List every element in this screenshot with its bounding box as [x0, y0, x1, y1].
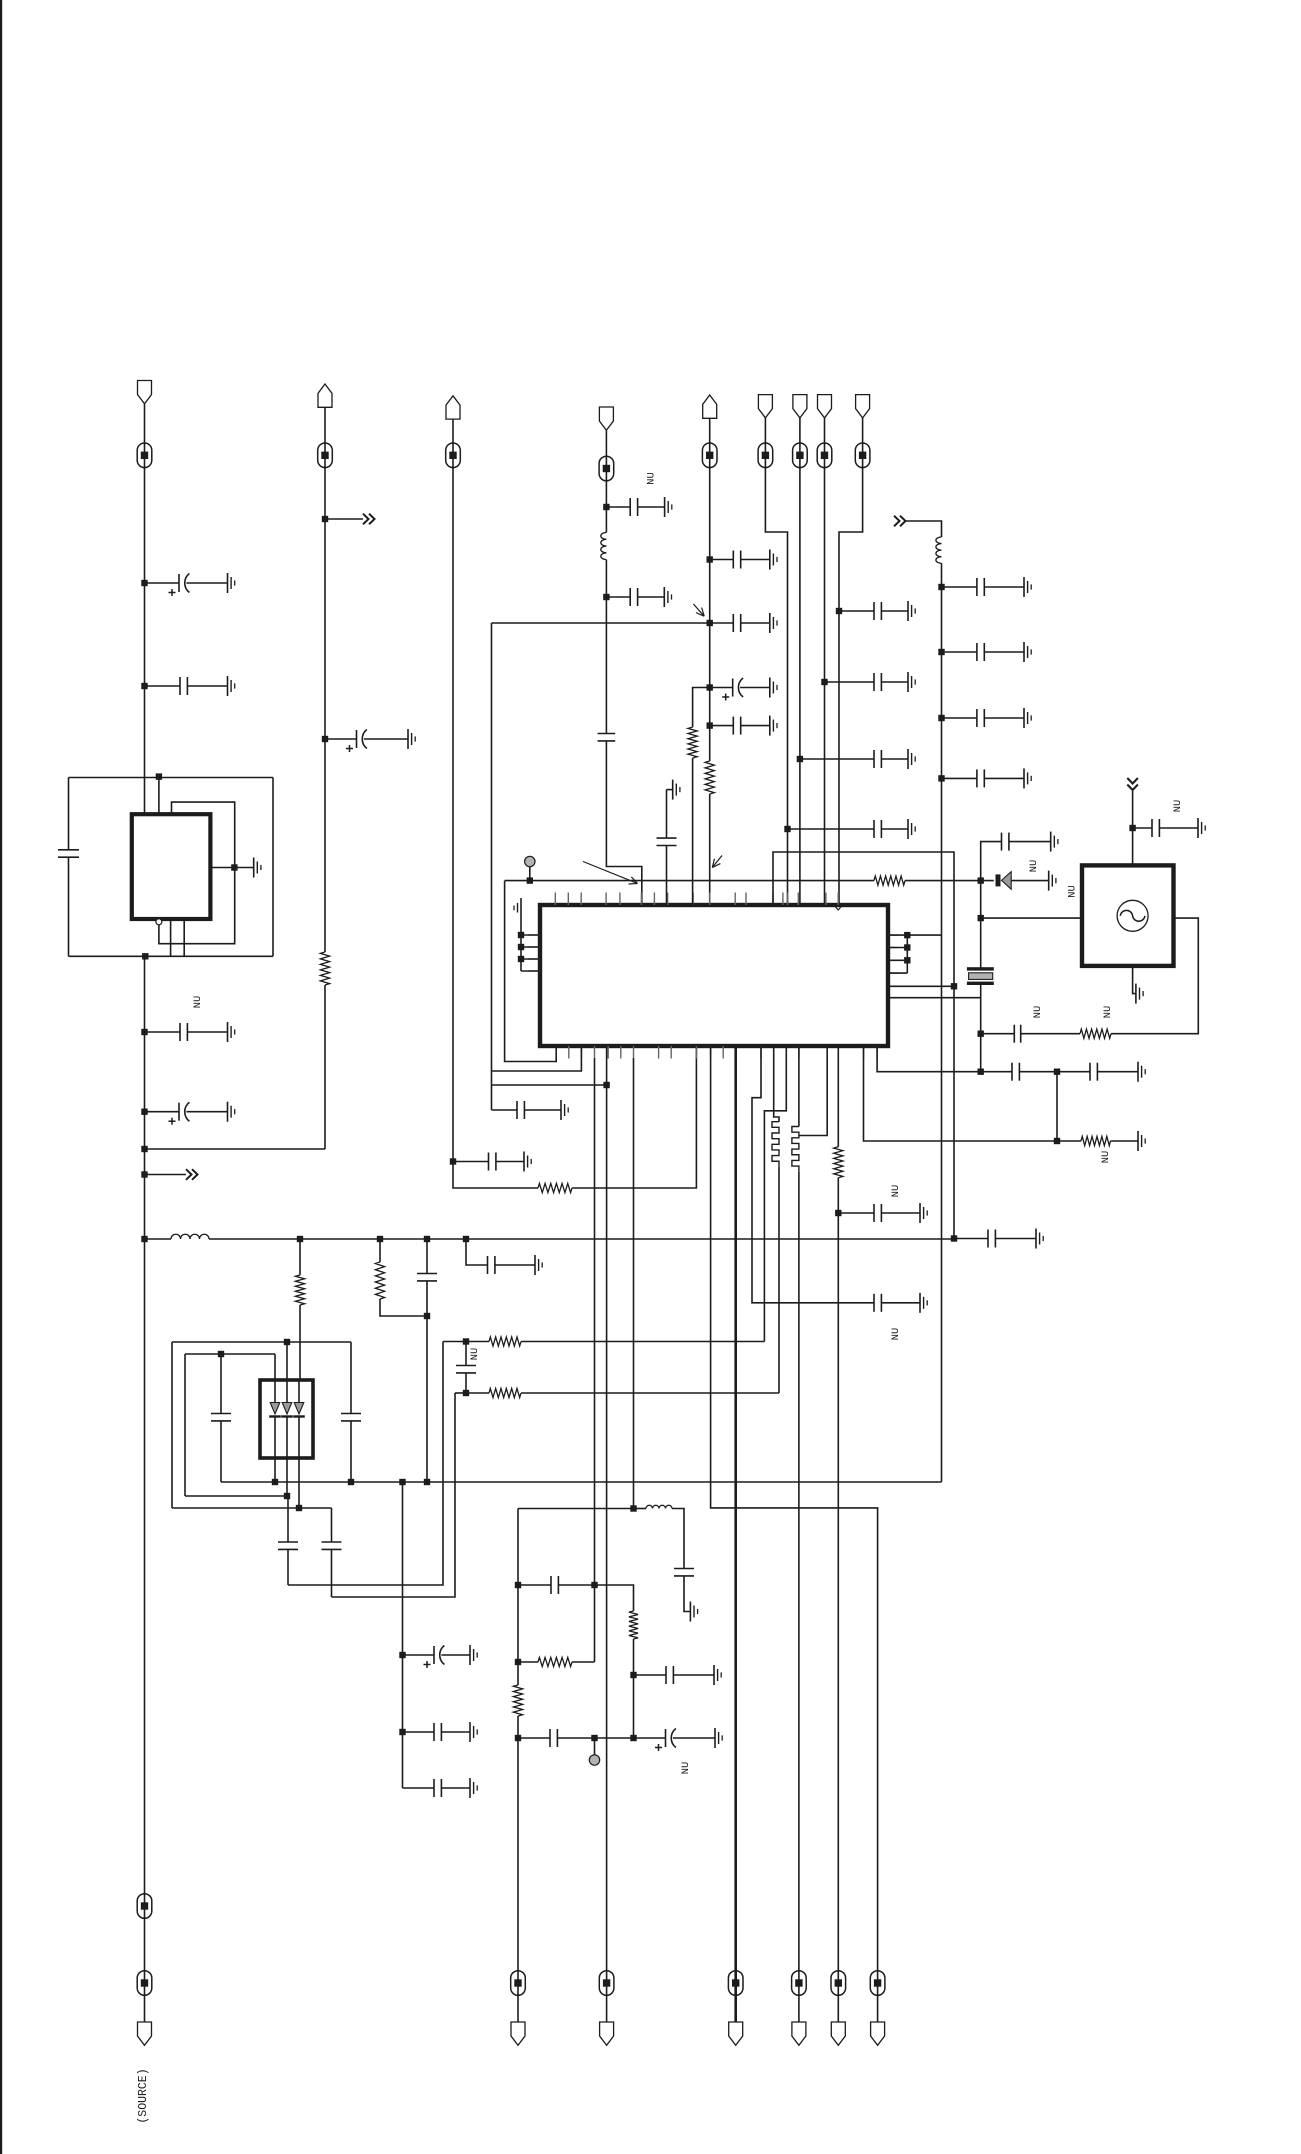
capacitor C17 ground: [907, 601, 909, 621]
wire X1 bottom pin B: [183, 919, 185, 956]
ground at U1 left pins: [520, 898, 522, 918]
annotation V arrowhead at IC pin: [833, 904, 843, 910]
capacitor C2 ground: [227, 676, 229, 696]
off-page arrow net1: [145, 1174, 187, 1176]
capacitor C35 (series): [657, 837, 677, 839]
junction x427/x380: [424, 1313, 430, 1319]
capacitor C11 ground: [769, 613, 771, 633]
capacitor C16 ground: [907, 672, 909, 692]
capacitor C37: [1133, 827, 1152, 829]
capacitor C8: [606, 596, 630, 598]
wire R14 to bottom connector: [837, 1178, 839, 2022]
testpoint oval bottom netD: [792, 1971, 807, 1996]
capacitor C43 (series): [674, 1568, 694, 1570]
wire C30 riser: [331, 1508, 333, 1542]
box around oscillator X1 - right edge: [272, 778, 274, 957]
wire row 1342 stub left: [443, 1341, 466, 1343]
wire C35 to U1 pin: [666, 846, 668, 906]
wire R4 to diode box: [299, 1305, 301, 1380]
wire R5 branch: [379, 1239, 381, 1262]
ground for C34: [560, 1100, 562, 1120]
junction row1662 left: [515, 1659, 521, 1665]
diode array U2 box: [260, 1380, 313, 1458]
wire pin633 down: [633, 1058, 635, 1509]
junction bus1482/C26: [424, 1479, 430, 1485]
connector P3 (top, net 3): [446, 396, 460, 419]
svg-text:NU: NU: [1100, 1151, 1112, 1164]
wire row1662: [518, 1661, 538, 1663]
wire right pin row 973: [888, 972, 907, 974]
wire row y880: [505, 880, 874, 882]
junction pin608 row1085: [603, 1082, 609, 1088]
connector P8 (top, net 8): [818, 395, 832, 418]
wire net3 vertical: [452, 419, 454, 1162]
ESD diode D2: [270, 1403, 280, 1415]
ground above C35: [672, 780, 674, 800]
capacitor C28 (series NU): [456, 1365, 476, 1367]
ESD diode D3: [282, 1403, 292, 1415]
wire row y1071 to pin 581: [492, 1046, 582, 1071]
testpoint oval on net 8: [817, 443, 832, 468]
connector P4 (top, net 4): [599, 407, 613, 430]
capacitor C31 (polarized) ground: [469, 1645, 471, 1665]
capacitor C30 (series): [322, 1541, 342, 1543]
svg-text:NU: NU: [469, 1348, 481, 1361]
wire loop B down: [332, 1393, 456, 1597]
wire crystal column lower: [980, 985, 982, 1072]
junction TP1: [527, 877, 533, 883]
junction: [938, 775, 944, 781]
capacitor C23 (bus end) ground: [1035, 1229, 1037, 1249]
wire net4 to IC pin jog: [606, 741, 641, 905]
capacitor C39: [1011, 1063, 1013, 1081]
junction: [938, 715, 944, 721]
wire left pin row 959: [521, 958, 540, 960]
resistor R12 (meander): [772, 1122, 779, 1167]
wire D1 to ground: [1011, 880, 1048, 882]
wire pin736 thick to bottom connector: [734, 1046, 737, 2022]
U1 left pin stubs: [528, 934, 540, 936]
ground for R11: [1137, 1131, 1139, 1151]
wire R8 to diode D1: [905, 880, 994, 882]
wire C24 vertical upper: [220, 1354, 222, 1414]
junction bus/R5 branch: [377, 1236, 383, 1242]
junction row1738 TP2: [591, 1735, 597, 1741]
capacitor C13: [710, 725, 734, 727]
junction X1 top pin: [156, 773, 162, 779]
junction: [141, 580, 147, 586]
junction left pin 947: [518, 944, 524, 950]
wire net5 to IC pin: [709, 794, 711, 905]
testpoint oval bottom netA: [511, 1971, 526, 1996]
junction: [707, 722, 713, 728]
wire x595 down to row1662: [594, 1585, 596, 1662]
junction U2 pin1 bus: [272, 1479, 278, 1485]
capacitor C12 (polarized) ground: [769, 678, 771, 698]
resistor R9: [688, 727, 697, 758]
wire U2 top pin 1: [274, 1354, 276, 1380]
wire net9: [839, 418, 863, 905]
wire net1 vertical upper: [144, 404, 146, 814]
wire C35 top elbow: [667, 789, 673, 791]
resistor R16: [538, 1657, 572, 1666]
testpoint oval bottom netE: [831, 1971, 846, 1996]
capacitor C23 (bus end): [954, 1238, 988, 1240]
wire X1 feedback loop: [159, 802, 235, 944]
testpoint TP2 (gray): [594, 1738, 596, 1755]
testpoint oval bottom netC: [728, 1971, 743, 1996]
oscillator X1 body: [132, 814, 211, 919]
capacitor C42: [838, 1212, 874, 1214]
junction right pin 947: [904, 944, 910, 950]
capacitor C20 ground: [1023, 708, 1025, 728]
junction left pin 935: [518, 932, 524, 938]
svg-text:NU: NU: [1172, 800, 1184, 813]
wire net pin608 to bottom connector: [606, 1046, 608, 2022]
inductor L3: [171, 1234, 209, 1239]
junction: [784, 826, 790, 832]
junction: [707, 684, 713, 690]
wire row1738 cap C46: [518, 1737, 550, 1739]
connector bottom netD: [792, 2022, 806, 2045]
wire X1 pin 1 (top): [158, 778, 160, 817]
wire R10 to C38: [1021, 1033, 1080, 1035]
capacitor C4 (polarized): [145, 1111, 180, 1113]
junction net1 arrow: [141, 1171, 147, 1177]
capacitor C2: [145, 685, 181, 687]
capacitor C33 ground: [469, 1778, 471, 1798]
box around oscillator X1 - top edge: [69, 777, 274, 779]
capacitor C38 (NU): [1013, 1025, 1015, 1043]
junction right pin row 986: [951, 983, 957, 989]
annotation arrow big: [583, 862, 638, 884]
wire U1 pin 773 loop to right pins: [773, 852, 954, 1239]
wire C29 lower: [287, 1549, 289, 1585]
wire R15 to junction1675: [633, 1639, 635, 1738]
junction: [322, 736, 328, 742]
wire left pin row 947: [521, 946, 540, 948]
wire G1 bottom to ground: [1133, 966, 1136, 994]
capacitor C42 ground: [919, 1203, 921, 1223]
inverted pin bubble on X1: [156, 919, 162, 925]
junction net2 arrow: [322, 516, 328, 522]
wire C46 to junction: [557, 1737, 594, 1739]
connector P2 (top, net 2): [318, 384, 332, 407]
wire C25 vertical lower: [350, 1421, 352, 1482]
wire U2 top pin 2: [286, 1342, 288, 1380]
capacitor C45: [665, 1666, 667, 1684]
capacitor C47 (polarized) ground: [714, 1728, 716, 1748]
connector P6 (top, net 6): [758, 395, 772, 418]
wire wrap x491 vertical: [491, 623, 493, 1110]
svg-text:NU: NU: [1032, 1006, 1044, 1019]
wire R9 to U1 pin: [692, 758, 694, 905]
ground for C45: [713, 1665, 715, 1685]
resistor R4: [295, 1275, 304, 1305]
junction: [707, 556, 713, 562]
junction row1342/x466: [463, 1338, 469, 1344]
wire R5 to junction: [380, 1299, 427, 1316]
ground for C36: [1050, 832, 1052, 852]
capacitor C6: [453, 1161, 489, 1163]
junction: [141, 1109, 147, 1115]
wire row1141 to R11: [1057, 1140, 1081, 1142]
connector bottom netB: [600, 2022, 614, 2045]
wire U2 bottom pin3: [298, 1458, 300, 1508]
resistor R3: [705, 761, 714, 794]
wire row1496: [185, 1495, 288, 1497]
wire right pin row 986: [888, 985, 954, 987]
capacitor C36: [1001, 833, 1003, 851]
wire C38 to crystal column: [981, 1033, 1015, 1035]
wire RF input: [906, 521, 942, 537]
wire row1354: [185, 1353, 275, 1355]
off-page arrow net2: [325, 518, 363, 520]
junction crystal column row1033: [978, 1031, 984, 1037]
capacitor C32: [403, 1731, 435, 1733]
wire right pin row 935 to RF column: [888, 934, 942, 936]
wire row 1188 to IC pin: [572, 1046, 696, 1188]
capacitor C7: [606, 506, 630, 508]
capacitor C44: [550, 1576, 552, 1594]
wire pin761 jog to C41 row: [752, 1046, 874, 1303]
wire R11 to ground: [1111, 1140, 1139, 1142]
junction crystal/osc row: [978, 915, 984, 921]
resistor R1: [320, 952, 329, 985]
svg-text:NU: NU: [680, 1762, 692, 1775]
wire row1072 to ground: [1057, 1071, 1090, 1073]
wire R16 to corner: [572, 1661, 595, 1663]
wire C26 branch upper: [426, 1239, 428, 1274]
resistor R6: [489, 1337, 521, 1346]
bus wire y1482: [221, 1481, 942, 1483]
diode D1: [996, 874, 1001, 886]
junction X1 output/loop: [231, 864, 237, 870]
wire C30 lower: [331, 1549, 333, 1597]
wire U2 bottom pin1 to bus: [274, 1458, 276, 1482]
junction C24 top: [218, 1351, 224, 1357]
capacitor C34: [516, 1101, 518, 1119]
connector bottom netE: [831, 2022, 845, 2045]
connector P1 (top, net 1): [138, 381, 152, 404]
wire row y880 left end down to pin 556: [505, 881, 557, 1062]
oscillator G1 body: [1082, 865, 1174, 966]
wire net3 corner to row 1188: [453, 1162, 538, 1189]
wire C9-chain handled; cap C35 chain (gnd above): [666, 790, 668, 839]
junction: [938, 584, 944, 590]
testpoint oval on net 6: [758, 443, 773, 468]
U1 top pin stubs: [554, 893, 556, 906]
wire G1 top: [1132, 791, 1134, 865]
svg-text:NU: NU: [1028, 860, 1040, 873]
junction row1072 left: [978, 1069, 984, 1075]
wire TP1 stem: [529, 867, 531, 881]
junction: [1129, 825, 1135, 831]
wire pin711 to bottom connector x877: [711, 1046, 878, 2022]
wire net1 vertical lower: [144, 956, 146, 2022]
junction right pin 960: [904, 957, 910, 963]
wire C26 branch lower: [426, 1281, 428, 1482]
connector P5 (top, net 5): [703, 395, 717, 418]
wire L4 to C43: [672, 1509, 684, 1569]
wire G1 right feedback: [1111, 918, 1198, 1034]
wire x466 through C28: [465, 1342, 467, 1366]
ground for D1: [1048, 871, 1050, 891]
ground below C43: [689, 1602, 691, 1622]
connector P9 (top, net 9): [856, 395, 870, 418]
wire net4 upper: [605, 431, 607, 533]
wire C41 to ground: [881, 1302, 920, 1304]
wire C43 to ground: [684, 1576, 690, 1612]
wire C44 to junction: [558, 1584, 594, 1586]
resistor R15: [629, 1611, 638, 1639]
wire row1393 to meander riser: [521, 1392, 779, 1394]
capacitor C37 ground: [1197, 818, 1199, 838]
capacitor C15 ground: [907, 749, 909, 769]
wire C36 to ground: [1009, 841, 1051, 843]
connector bottom net1: [138, 2022, 152, 2045]
wire C24 vertical lower: [220, 1421, 222, 1482]
wire pin798 to meander R13: [798, 1046, 800, 1127]
testpoint oval on net 9: [855, 443, 870, 468]
wire row1393 to resistor: [466, 1392, 489, 1394]
capacitor C47 (polarized): [634, 1737, 666, 1739]
wire net5 vertical: [709, 418, 711, 761]
junction bus1482/C31 branch: [399, 1479, 405, 1485]
wire R13 to bottom connector: [798, 1172, 800, 2022]
testpoint oval bottom net1: [137, 1971, 152, 1996]
junction U2 pin2 top: [284, 1339, 290, 1345]
wire U1 pin863 to row1141: [864, 1046, 1058, 1141]
testpoint oval bottom netF: [870, 1971, 885, 1996]
wire C27 to ground: [495, 1264, 535, 1266]
junction: [938, 649, 944, 655]
capacitor C3: [145, 1031, 181, 1033]
wire left pin row 935: [521, 934, 540, 936]
wire R12 to row1393: [778, 1167, 780, 1393]
testpoint oval on net1 (lower): [137, 1894, 152, 1919]
wire row1342 to resistor: [466, 1341, 489, 1343]
junction right pin 935: [904, 932, 910, 938]
box around oscillator X1 - left edge lower: [68, 857, 70, 956]
connector P7 (top, net 7): [793, 395, 807, 418]
junction row1738 x633: [630, 1735, 636, 1741]
junction diode row / crystal column: [978, 877, 984, 883]
wire row y623: [492, 622, 710, 624]
junction row1393/x466: [463, 1390, 469, 1396]
annotation arrow at IC pin (net5): [712, 856, 722, 868]
wire C45 to ground: [673, 1674, 714, 1676]
wire net1 to R1 row: [145, 1148, 326, 1150]
junction net1 at box bottom: [142, 953, 148, 959]
capacitor C12 (polarized): [710, 687, 733, 689]
wire R17 to row1738: [517, 1716, 519, 1738]
resistor R5: [375, 1262, 384, 1299]
junction: [835, 1210, 841, 1216]
crystal Y1: [967, 967, 994, 970]
junction U2 pin2 bottom: [284, 1493, 290, 1499]
capacitor C21: [942, 777, 977, 779]
wire C29 riser: [287, 1496, 289, 1542]
capacitor C18 ground: [1023, 577, 1025, 597]
junction: [399, 1652, 405, 1658]
wire row1585 right: [595, 1585, 634, 1611]
junction row1141: [1054, 1138, 1060, 1144]
wire net6: [765, 418, 787, 905]
resistor R2: [538, 1183, 572, 1192]
wire loop A down: [288, 1342, 443, 1586]
junction: [141, 1029, 147, 1035]
junction: [836, 608, 842, 614]
wire net7: [799, 418, 801, 905]
wire right pin row 960: [888, 959, 907, 961]
capacitor C8 ground: [663, 587, 665, 607]
capacitor C5 (polarized): [325, 738, 357, 740]
ground for C27: [534, 1255, 536, 1275]
capacitor C31 (polarized): [403, 1654, 435, 1656]
junction bus/net1: [141, 1236, 147, 1242]
wire crystal column upper: [981, 842, 1002, 969]
capacitor C1 (polarized): [145, 582, 180, 584]
wire right pin row 947: [888, 947, 907, 949]
testpoint oval on net 7: [793, 443, 808, 468]
wire C28 to row1393: [465, 1373, 467, 1393]
wire row1675 cap C45: [634, 1674, 667, 1676]
wire row y1110 to C34: [492, 1109, 518, 1111]
wire row1342 to IC pin riser: [521, 1341, 764, 1343]
ground for C40: [1137, 1062, 1139, 1082]
capacitor C26 (series): [417, 1273, 437, 1275]
capacitor C27: [487, 1256, 489, 1274]
off-page chevrons above G1: [1127, 778, 1138, 784]
inductor L1: [601, 533, 607, 560]
wire right pins vertical x907: [906, 935, 908, 973]
wire X1 bottom pin A: [170, 919, 172, 956]
capacitor C15: [800, 758, 874, 760]
wire row1508 box top: [518, 1508, 634, 1510]
capacitor C18: [942, 586, 977, 588]
wire RF column: [941, 563, 943, 1482]
svg-text:NU: NU: [1067, 885, 1079, 898]
wire net2 vertical: [324, 407, 326, 952]
junction: [951, 1235, 957, 1241]
junction bus/R4 branch: [297, 1236, 303, 1242]
junction C25 bus: [348, 1479, 354, 1485]
testpoint oval on net 1: [137, 443, 152, 468]
wire pin774 to meander R12: [774, 1046, 779, 1122]
ground for C41: [919, 1293, 921, 1313]
resistor R13 (meander): [792, 1127, 799, 1172]
junction row1585 mid: [591, 1582, 597, 1588]
bus wire y1239 left segment: [145, 1238, 172, 1240]
bus wire y1239 main: [209, 1238, 954, 1240]
capacitor C40: [1089, 1063, 1091, 1081]
wire box left x518: [517, 1509, 519, 1686]
capacitor C4 (polarized) ground: [227, 1102, 229, 1122]
ground at X1 output: [253, 858, 255, 878]
testpoint oval on net 2: [318, 443, 333, 468]
wire right pin row 997: [888, 997, 981, 999]
capacitor C1 (polarized) ground: [227, 573, 229, 593]
svg-text:NU: NU: [1102, 1006, 1114, 1019]
wire row1342a: [172, 1341, 351, 1343]
junction bus/C27 branch: [463, 1236, 469, 1242]
capacitor C25 (series): [341, 1413, 361, 1415]
wire net4 mid: [605, 560, 607, 734]
wire row1585 cap C44: [518, 1584, 551, 1586]
junction bus/C26 branch: [424, 1236, 430, 1242]
junction: [707, 620, 713, 626]
